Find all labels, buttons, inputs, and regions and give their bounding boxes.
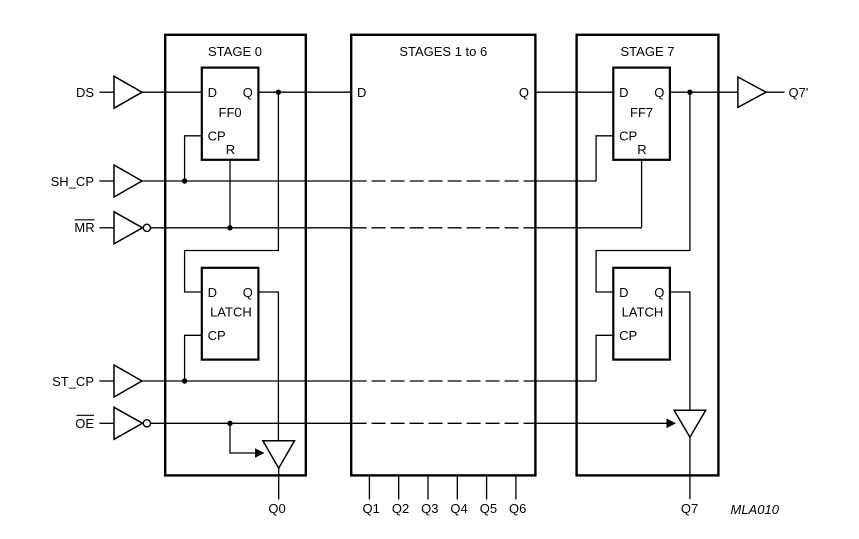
dashed SH_CP through stages 1-6 bbox=[353, 180, 536, 182]
arrowhead enable stage 0 bbox=[255, 448, 265, 458]
junction FF7 Q node bbox=[687, 90, 692, 95]
wire FF7 R drop bbox=[641, 160, 643, 228]
wire FF0 R drop bbox=[229, 160, 231, 228]
wire FF0 CP riser bbox=[185, 136, 202, 181]
wire OE buffer across stage 0 bbox=[151, 422, 352, 424]
svg-text:CP: CP bbox=[208, 129, 226, 144]
svg-text:STAGE 0: STAGE 0 bbox=[208, 44, 262, 59]
svg-text:STAGES 1 to 6: STAGES 1 to 6 bbox=[399, 44, 487, 59]
flip-flop FF7 bbox=[613, 68, 670, 160]
svg-text:MR: MR bbox=[74, 220, 94, 235]
stage 7 box bbox=[577, 35, 719, 476]
dashed MR through stages 1-6 bbox=[353, 227, 536, 229]
svg-text:Q: Q bbox=[654, 285, 664, 300]
wire SH_CP buffer across stage 0 bbox=[142, 180, 351, 182]
wire Q5 stub bbox=[486, 475, 488, 499]
input buffer DS bbox=[114, 76, 142, 108]
wire MR into stage 7 bbox=[535, 227, 641, 229]
svg-text:OE: OE bbox=[75, 416, 94, 431]
wire OE into stage 7 bbox=[535, 422, 666, 424]
wire FF0 Q to latch 0 D bbox=[185, 92, 279, 292]
svg-text:STAGE 7: STAGE 7 bbox=[621, 44, 675, 59]
svg-text:Q: Q bbox=[243, 85, 253, 100]
wire Q7 stub bbox=[689, 437, 691, 499]
svg-text:Q4: Q4 bbox=[450, 501, 467, 516]
wire Q3 stub bbox=[427, 475, 429, 499]
wire OE enable drop to 3-state 0 bbox=[230, 423, 255, 453]
arrowhead enable stage 7 bbox=[667, 419, 677, 429]
svg-text:CP: CP bbox=[619, 328, 637, 343]
stages 1 to 6 box bbox=[351, 35, 535, 476]
output buffer Q7' bbox=[738, 77, 766, 107]
input buffer MR (inverting) bbox=[114, 212, 150, 244]
dashed ST_CP through stages 1-6 bbox=[353, 380, 536, 382]
wire FF0 Q output to stages 1-6 bbox=[258, 91, 351, 93]
svg-text:SH_CP: SH_CP bbox=[51, 174, 94, 189]
3-state output buffer stage 7 bbox=[674, 410, 706, 437]
svg-text:Q5: Q5 bbox=[480, 501, 497, 516]
svg-text:LATCH: LATCH bbox=[210, 305, 252, 320]
junction SH_CP / FF0 CP bbox=[182, 178, 187, 183]
wire Q1 stub bbox=[368, 475, 370, 499]
svg-text:CP: CP bbox=[619, 129, 637, 144]
wire MR buffer across stage 0 bbox=[151, 227, 352, 229]
svg-text:R: R bbox=[637, 142, 646, 157]
wire FF7 Q to output buffer bbox=[670, 91, 738, 93]
wire FF7 Q to latch 7 D bbox=[596, 92, 690, 292]
junction OE / stage 0 enable bbox=[227, 421, 232, 426]
svg-text:ST_CP: ST_CP bbox=[52, 374, 94, 389]
wire latch 7 CP riser bbox=[596, 335, 613, 381]
latch 7 pin labels bbox=[619, 285, 664, 343]
label MR with overline bbox=[74, 220, 94, 235]
latch 7 bbox=[613, 268, 670, 360]
stage 0 box bbox=[165, 35, 306, 476]
svg-text:Q2: Q2 bbox=[392, 501, 409, 516]
svg-text:MLA010: MLA010 bbox=[731, 502, 780, 517]
FF0 pin labels bbox=[208, 85, 253, 157]
junction FF0 Q node bbox=[276, 90, 281, 95]
latch 0 bbox=[202, 268, 259, 360]
junction ST_CP / latch 0 CP bbox=[182, 378, 187, 383]
wire latch 7 Q to 3-state bbox=[670, 292, 690, 410]
wire stages 1-6 Q to FF7 D bbox=[535, 91, 613, 93]
junction MR / FF0 R bbox=[227, 225, 232, 230]
wire ST_CP buffer across stage 0 bbox=[142, 380, 351, 382]
input buffer OE (inverting) bbox=[114, 407, 150, 439]
svg-text:Q0: Q0 bbox=[268, 501, 285, 516]
svg-text:Q7: Q7 bbox=[681, 501, 698, 516]
wire ST_CP into stage 7 bbox=[535, 380, 596, 382]
svg-text:Q: Q bbox=[243, 285, 253, 300]
input buffer ST_CP bbox=[114, 365, 142, 397]
wire Q2 stub bbox=[398, 475, 400, 499]
svg-text:Q: Q bbox=[519, 85, 529, 100]
svg-text:FF0: FF0 bbox=[219, 105, 242, 120]
svg-text:Q1: Q1 bbox=[363, 501, 380, 516]
svg-text:Q3: Q3 bbox=[421, 501, 438, 516]
dashed OE through stages 1-6 bbox=[353, 422, 536, 424]
input buffer SH_CP bbox=[114, 165, 142, 197]
wire SH_CP label stub bbox=[99, 180, 113, 182]
wire DS buffer to FF0 D bbox=[142, 91, 202, 93]
svg-text:D: D bbox=[208, 285, 217, 300]
svg-text:D: D bbox=[619, 285, 628, 300]
wire DS label stub bbox=[99, 91, 113, 93]
wire OE label stub bbox=[99, 422, 113, 424]
wire SH_CP into stage 7 bbox=[535, 180, 596, 182]
svg-text:FF7: FF7 bbox=[630, 105, 653, 120]
svg-text:D: D bbox=[357, 85, 366, 100]
svg-text:DS: DS bbox=[76, 85, 94, 100]
wire Q0 stub bbox=[278, 468, 280, 499]
svg-text:Q: Q bbox=[654, 85, 664, 100]
wire latch 0 Q to 3-state bbox=[258, 292, 278, 441]
wire Q4 stub bbox=[456, 475, 458, 499]
svg-text:D: D bbox=[208, 85, 217, 100]
wire FF7 CP riser bbox=[596, 136, 613, 181]
svg-text:Q7': Q7' bbox=[789, 85, 809, 100]
wire MR label stub bbox=[99, 227, 113, 229]
svg-text:Q6: Q6 bbox=[509, 501, 526, 516]
label OE with overline bbox=[75, 415, 94, 431]
svg-text:CP: CP bbox=[208, 328, 226, 343]
3-state output buffer stage 0 bbox=[263, 441, 295, 469]
svg-text:LATCH: LATCH bbox=[622, 305, 664, 320]
wire Q6 stub bbox=[515, 475, 517, 499]
wire ST_CP label stub bbox=[99, 380, 113, 382]
wire latch 0 CP riser bbox=[185, 335, 202, 381]
wire Q7' stub bbox=[766, 91, 785, 93]
svg-text:R: R bbox=[226, 142, 235, 157]
svg-text:D: D bbox=[619, 85, 628, 100]
FF7 pin labels bbox=[619, 85, 664, 157]
flip-flop FF0 bbox=[202, 68, 259, 160]
latch 0 pin labels bbox=[208, 285, 253, 343]
